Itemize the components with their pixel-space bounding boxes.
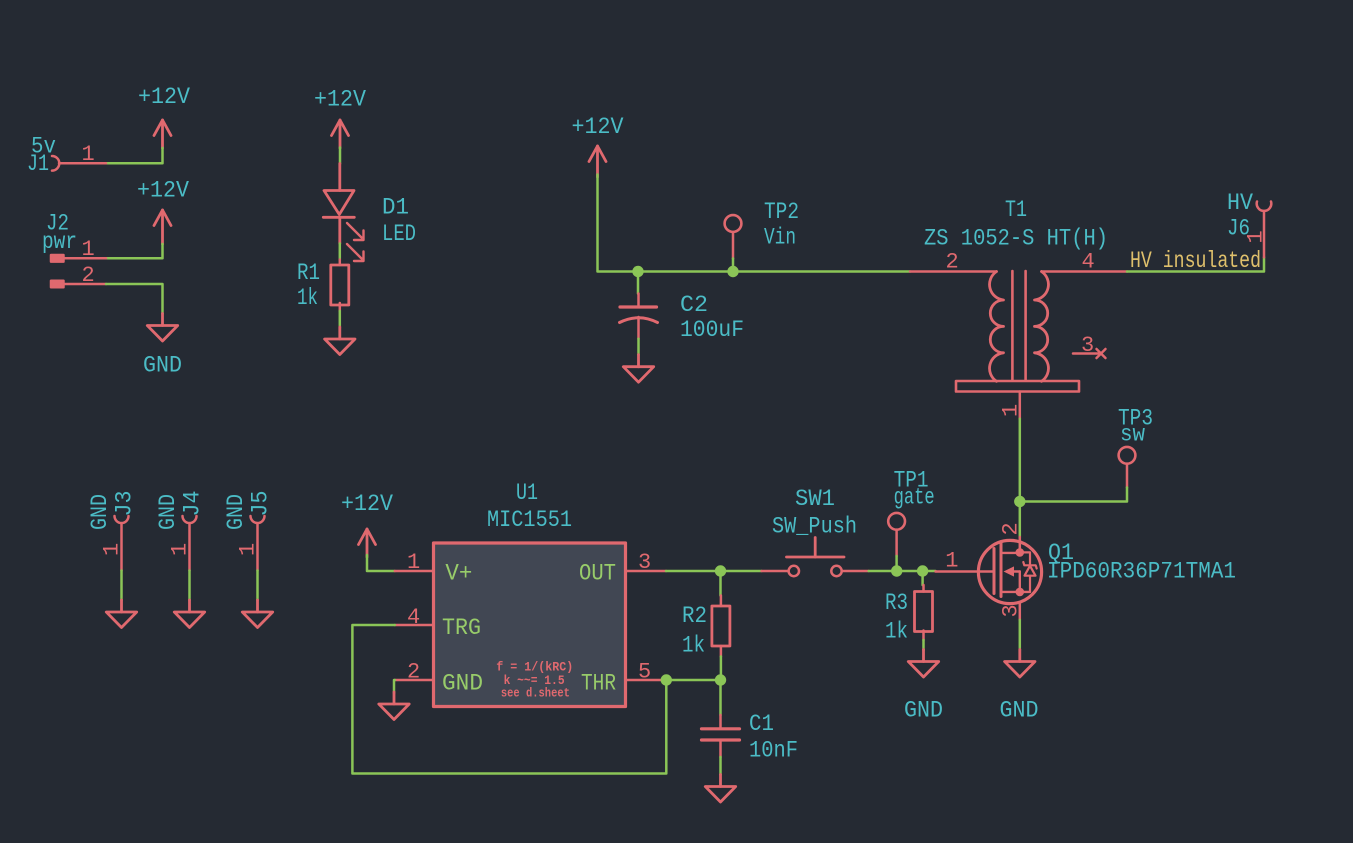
svg-text:1: 1: [82, 142, 95, 167]
test point TP1: [888, 513, 905, 530]
pin TP2: [732, 232, 735, 258]
pin 3 of T1 no-connect: [1073, 349, 1106, 358]
wire D1 to R1: [339, 244, 342, 260]
capacitor C2: [620, 294, 658, 339]
svg-text:LED: LED: [382, 221, 416, 247]
svg-text:100uF: 100uF: [680, 317, 744, 343]
svg-text:T1: T1: [1005, 197, 1027, 223]
svg-text:GND: GND: [1000, 698, 1039, 724]
svg-text:1k: 1k: [297, 285, 318, 311]
ground (U1): [379, 692, 409, 720]
Q1 source arrow: [1004, 566, 1015, 576]
pin TP1: [895, 530, 898, 556]
svg-text:HV insulated: HV insulated: [1130, 248, 1261, 274]
wire J1 to +12V: [106, 148, 163, 163]
secondary winding T1: [1035, 272, 1049, 382]
svg-text:R1: R1: [297, 260, 320, 286]
svg-text:D1: D1: [382, 195, 409, 221]
power symbol +12V arrow (U1): [359, 529, 376, 557]
svg-text:THR: THR: [581, 671, 616, 697]
power symbol +12V arrow (D1): [332, 120, 349, 148]
svg-text:C1: C1: [749, 711, 774, 737]
svg-text:2: 2: [999, 522, 1024, 535]
svg-text:4: 4: [1082, 250, 1095, 275]
pin 4 TRG (U1): [395, 624, 434, 627]
wire +12V to D1: [339, 148, 342, 164]
Q1 body diode: [1020, 552, 1037, 592]
wire THR junction: [666, 679, 721, 682]
test point TP3: [1119, 447, 1136, 464]
wire R3 to GND: [922, 640, 925, 650]
wire +12V to U1 V+: [367, 555, 395, 571]
Q1 gate pin: [936, 570, 993, 573]
svg-text:gate: gate: [894, 485, 935, 511]
wire J5 to GND: [256, 571, 259, 601]
node junction THR: [661, 674, 672, 685]
svg-text:J1: J1: [27, 151, 49, 177]
diode D1 LED: [323, 164, 354, 244]
svg-text:+12V: +12V: [314, 87, 366, 113]
svg-text:J3: J3: [112, 491, 138, 517]
svg-text:GND: GND: [442, 671, 483, 697]
svg-text:GND: GND: [155, 494, 181, 530]
svg-text:5: 5: [638, 660, 651, 685]
wire T1 pin4 to J6: [1127, 257, 1264, 271]
svg-text:SW1: SW1: [795, 486, 835, 512]
wire J3 to GND: [120, 571, 123, 601]
svg-text:SW_Push: SW_Push: [772, 514, 857, 540]
svg-text:J5: J5: [248, 491, 274, 517]
node junction TP3/drain: [1014, 496, 1025, 507]
ground (C2): [623, 355, 653, 383]
wire TP2 to rail: [732, 259, 735, 272]
node junction C2: [632, 266, 643, 277]
wire U1 GND pin to ground: [393, 680, 396, 693]
svg-text:ZS 1052-S HT(H): ZS 1052-S HT(H): [924, 226, 1108, 252]
svg-text:GND: GND: [904, 698, 943, 724]
svg-text:2: 2: [82, 263, 95, 288]
svg-text:+12V: +12V: [341, 491, 393, 517]
connector J6 pin 1: [1257, 202, 1272, 258]
svg-text:2: 2: [946, 250, 959, 275]
capacitor C1: [702, 715, 740, 757]
transistor Q1 internals: [994, 542, 1030, 597]
node junction R3: [917, 565, 928, 576]
connector J1 pin 1: [52, 156, 106, 171]
svg-text:MIC1551: MIC1551: [487, 507, 572, 533]
svg-text:TP2: TP2: [764, 199, 799, 225]
connector J4 pin 1: [183, 516, 197, 571]
wire TP1 to node: [895, 556, 898, 571]
resistor R3: [922, 585, 925, 640]
wire R2 to THR: [720, 657, 723, 681]
svg-text:sw: sw: [1120, 422, 1145, 448]
svg-text:+12V: +12V: [137, 178, 189, 204]
svg-text:1: 1: [945, 549, 958, 574]
wire J2 pin2 to GND: [106, 284, 163, 314]
pin 5 THR (U1): [626, 679, 667, 682]
svg-text:1: 1: [82, 237, 95, 262]
test point TP2: [725, 215, 742, 232]
svg-text:OUT: OUT: [579, 561, 616, 587]
svg-text:U1: U1: [516, 480, 538, 506]
svg-text:TRG: TRG: [442, 615, 481, 641]
svg-text:GND: GND: [143, 353, 182, 379]
pin 2 drain (Q1): [1019, 537, 1022, 552]
shield plate T1: [956, 381, 1079, 392]
svg-text:1: 1: [236, 543, 261, 556]
Q1 drain dot: [1016, 548, 1025, 557]
power symbol +12V arrow (rail): [589, 146, 606, 177]
svg-text:1: 1: [100, 543, 125, 556]
wire J2 pin1 to +12V: [106, 244, 163, 258]
resistor R2: [720, 596, 723, 657]
svg-text:1k: 1k: [885, 619, 908, 645]
pin TP3: [1126, 464, 1129, 487]
node junction TP2: [727, 266, 738, 277]
svg-text:1: 1: [999, 404, 1024, 417]
core T1: [1012, 271, 1025, 381]
ground (R3): [908, 650, 938, 678]
connector J2 pin 2: [51, 281, 106, 288]
pin 3 source (Q1): [1019, 604, 1022, 620]
wire +12V rail: [598, 175, 911, 272]
wire SW1 to TP1 node: [869, 570, 897, 573]
ground (C1): [705, 775, 735, 803]
svg-text:GND: GND: [223, 494, 249, 530]
transistor Q1 body circle: [978, 540, 1041, 603]
wire TP3 to drain node: [1020, 488, 1127, 502]
svg-text:HV: HV: [1227, 190, 1253, 216]
svg-text:3: 3: [638, 550, 651, 575]
svg-text:GND: GND: [87, 494, 113, 530]
ground (J4): [174, 600, 204, 628]
wire OUT to SW1: [666, 570, 762, 573]
LED light arrows (D1): [347, 223, 364, 261]
primary winding T1: [990, 272, 1004, 382]
wire node to R3: [921, 571, 924, 585]
svg-text:3: 3: [999, 604, 1024, 617]
svg-text:C2: C2: [680, 292, 708, 318]
svg-text:V+: V+: [445, 561, 472, 587]
op-amp U1 body: [434, 543, 626, 707]
pin 3 OUT (U1): [626, 570, 667, 573]
svg-text:R2: R2: [682, 603, 707, 629]
svg-text:10nF: 10nF: [749, 738, 798, 764]
node junction TP1: [891, 565, 902, 576]
wire C2 to GND: [637, 339, 640, 355]
connector J2 pin 1: [51, 255, 106, 262]
ground (R1): [325, 327, 355, 355]
power symbol +12V arrow (J1): [154, 120, 171, 148]
pin 1 of T1: [1019, 392, 1022, 419]
power symbol +12V arrow (J2): [154, 210, 171, 244]
svg-text:Vin: Vin: [764, 225, 796, 251]
wire THR to C1: [719, 680, 722, 715]
svg-text:1: 1: [168, 543, 193, 556]
svg-text:pwr: pwr: [42, 229, 77, 255]
svg-text:f = 1/(kRC): f = 1/(kRC): [496, 661, 573, 675]
switch SW1: [762, 538, 869, 577]
svg-text:1k: 1k: [682, 633, 705, 659]
wire R1 to GND: [339, 311, 342, 327]
wire Q1 source to GND: [1019, 620, 1022, 650]
pin 4 of T1: [1042, 270, 1128, 273]
ground (J2): [147, 314, 177, 342]
node junction OUT: [715, 565, 726, 576]
svg-text:1: 1: [407, 550, 420, 575]
wire R3 node to Q1 gate: [923, 570, 936, 573]
pin 1 V+ (U1): [395, 570, 434, 573]
wire J4 to GND: [188, 571, 191, 601]
svg-text:4: 4: [407, 605, 420, 630]
svg-text:IPD60R36P71TMA1: IPD60R36P71TMA1: [1047, 559, 1236, 585]
Q1 source dot: [1016, 588, 1025, 597]
svg-text:J4: J4: [180, 491, 206, 517]
pin 2 of T1: [910, 270, 997, 273]
svg-text:+12V: +12V: [572, 114, 624, 140]
connector J5 pin 1: [251, 516, 265, 571]
svg-text:R3: R3: [885, 590, 908, 616]
wire TRG feedback loop: [352, 625, 666, 774]
wire C1 to GND: [719, 757, 722, 775]
svg-text:+12V: +12V: [138, 84, 190, 110]
pin 2 GND (U1): [395, 679, 434, 682]
wire rail to C2: [637, 272, 640, 294]
ground (J3): [106, 600, 136, 628]
svg-text:1: 1: [1244, 230, 1269, 243]
wire T1 pin1 to Q1 drain: [1019, 419, 1022, 537]
node junction R2/C1: [715, 674, 726, 685]
resistor R1: [339, 260, 342, 312]
svg-text:2: 2: [407, 660, 420, 685]
wire TP1 node to R3 node: [897, 570, 923, 573]
svg-text:see d.sheet: see d.sheet: [501, 687, 570, 701]
wire OUT to R2: [719, 571, 722, 596]
svg-text:3: 3: [1081, 333, 1094, 358]
connector J3 pin 1: [115, 516, 129, 571]
ground (Q1): [1005, 650, 1035, 678]
ground (J5): [242, 600, 272, 628]
